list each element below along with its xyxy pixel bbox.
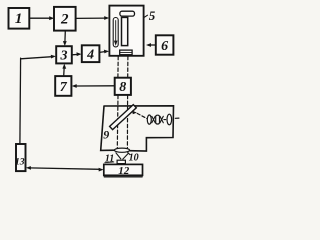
beam arrow after mirror bbox=[132, 111, 137, 115]
lens L2 bbox=[167, 114, 172, 125]
block 4 bbox=[82, 45, 100, 62]
middle bar inside 5 bbox=[122, 17, 128, 45]
wire 8 to 7 bbox=[72, 84, 115, 88]
slit 11 bbox=[117, 160, 125, 163]
mirror 9 bbox=[110, 105, 137, 130]
beam crossing X1 bbox=[152, 116, 155, 123]
block 6 bbox=[156, 35, 174, 54]
block 1 bbox=[9, 8, 30, 29]
block 12 bbox=[104, 164, 143, 176]
svg-text:8: 8 bbox=[119, 80, 126, 95]
feedback wire horizontal into 3 bbox=[21, 55, 56, 59]
svg-text:2: 2 bbox=[60, 12, 69, 28]
wire 1 to 2 bbox=[29, 16, 54, 20]
lens 10 bbox=[114, 148, 129, 152]
feedback wire vertical to 13 bbox=[19, 58, 22, 143]
wire 4 to 5 bbox=[100, 50, 109, 54]
svg-text:5: 5 bbox=[149, 8, 156, 23]
left tube inside 5 bbox=[113, 18, 118, 47]
block 13 bbox=[15, 144, 25, 171]
top bar inside 5 bbox=[120, 11, 135, 16]
dashed beam 5 to 8 left bbox=[117, 56, 119, 77]
svg-text:7: 7 bbox=[60, 80, 68, 95]
dashed beam exiting right bbox=[175, 117, 180, 119]
svg-text:12: 12 bbox=[118, 165, 130, 177]
dash before L2 bbox=[164, 119, 166, 121]
dashed beam 8 to lens left bbox=[116, 95, 119, 148]
svg-text:1: 1 bbox=[15, 11, 23, 27]
beam crossing X2 bbox=[160, 116, 163, 123]
wire 6 to 5 bbox=[146, 43, 156, 47]
wire 12 to 13 bbox=[26, 166, 104, 171]
slit element bbox=[156, 115, 160, 124]
svg-text:4: 4 bbox=[86, 47, 94, 62]
wire 2 to 3 bbox=[63, 31, 67, 46]
dashed beam 8 to lens right bbox=[126, 95, 128, 148]
dashed beam mirror to lens row bbox=[137, 113, 147, 118]
bottom bar inside 5 bbox=[120, 50, 132, 55]
block 5 atomizer housing bbox=[109, 6, 143, 56]
lens L1 bbox=[147, 115, 151, 124]
dashed beam 5 to 8 right bbox=[127, 56, 129, 77]
converging beam V bbox=[116, 153, 128, 159]
block 3 bbox=[56, 46, 72, 63]
svg-text:10: 10 bbox=[129, 153, 139, 164]
svg-text:9: 9 bbox=[103, 127, 109, 141]
svg-text:13: 13 bbox=[15, 157, 25, 167]
wire 2 to 5 bbox=[76, 16, 109, 20]
label 5 leader tick bbox=[144, 15, 148, 18]
svg-text:6: 6 bbox=[161, 39, 168, 54]
block 7 bbox=[55, 76, 71, 96]
label 11 bbox=[105, 153, 115, 164]
wire 3 to 4 bbox=[72, 52, 82, 56]
block 2 bbox=[54, 7, 76, 31]
wire 7 to 3 bbox=[62, 64, 66, 76]
enclosure spectrometer housing bbox=[101, 106, 174, 151]
block 8 bbox=[115, 78, 131, 95]
svg-text:3: 3 bbox=[60, 49, 68, 64]
block 12 lower line bbox=[104, 176, 142, 178]
label 10 bbox=[127, 152, 138, 164]
